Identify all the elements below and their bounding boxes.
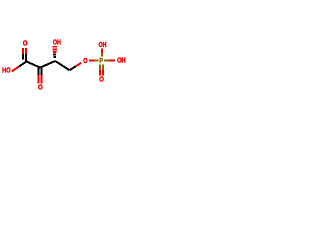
wire C2=O right line black half (41, 68, 43, 75)
wire C2=O left line red half (38, 75, 40, 83)
wire C1=O main line red half (25, 48, 27, 54)
wire C2=O right line red half (41, 75, 43, 83)
wire P=O left line olive half (99, 65, 101, 70)
svg-text:O: O (38, 83, 43, 92)
hash dash 5 black (53, 56, 56, 58)
hash dash 4 black (53, 54, 56, 56)
wire bond HO-C1 black half (19, 62, 26, 67)
wire P=O right line olive half (102, 65, 104, 70)
svg-text:OH: OH (117, 56, 126, 65)
wire bond HO-C1 red half (12, 66, 19, 71)
wire C2=O left line black half (38, 68, 40, 75)
svg-text:HO: HO (2, 66, 11, 75)
wire bond P-OHright red half (110, 59, 115, 61)
wire bond C1-C2 (27, 62, 41, 68)
hash dash 1 red (52, 46, 57, 48)
wire C1=O second line black half (22, 54, 24, 59)
svg-text:OH: OH (53, 38, 61, 47)
wire bond OHtop-P red half (101, 49, 103, 53)
wire bond C4-O ester red half (75, 63, 81, 67)
wire bond C3-C4 (55, 61, 69, 70)
hash dash 3 red (53, 51, 57, 53)
wire P=O left line red half (99, 70, 101, 76)
wire bond P-OHright olive half (104, 59, 110, 61)
wire C1=O second line red half (22, 48, 24, 54)
svg-text:O: O (83, 56, 87, 65)
svg-text:O: O (23, 39, 28, 48)
wire C1=O main line black half (25, 54, 27, 62)
wire bond OHtop-P olive half (101, 53, 103, 57)
hash dash 2 red (53, 48, 57, 50)
wire P=O right line red half (102, 70, 104, 76)
wire bond C4-O ester black half (70, 67, 76, 71)
svg-text:OH: OH (99, 40, 107, 49)
wire bond Oester-P red half (89, 59, 94, 61)
wire bond C2-C3 (40, 61, 55, 68)
wire bond Oester-P olive half (94, 59, 99, 61)
svg-text:O: O (99, 75, 104, 84)
svg-text:P: P (99, 56, 103, 65)
